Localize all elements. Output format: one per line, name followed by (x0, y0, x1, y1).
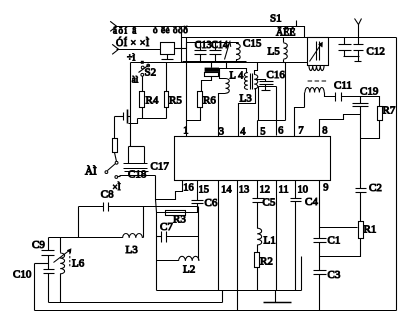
svg-text:R6: R6 (203, 95, 216, 107)
svg-text:L1: L1 (264, 235, 276, 247)
svg-text:L6: L6 (72, 258, 85, 270)
svg-text:ò êè õöð: ò êè õöð (153, 25, 188, 35)
svg-text:C17: C17 (151, 161, 170, 173)
svg-text:C15: C15 (243, 38, 262, 50)
svg-text:÷ì: ÷ì (127, 53, 135, 64)
svg-text:L2: L2 (183, 264, 195, 276)
svg-text:R5: R5 (169, 95, 182, 107)
svg-text:C4: C4 (305, 196, 318, 208)
svg-text:C8: C8 (101, 189, 114, 201)
svg-text:16: 16 (183, 183, 194, 194)
svg-text:C13: C13 (195, 40, 212, 51)
svg-text:9: 9 (323, 183, 328, 194)
svg-text:C16: C16 (267, 69, 286, 81)
svg-text:R2: R2 (260, 256, 273, 268)
svg-text:C10: C10 (13, 269, 32, 281)
svg-text:ÓÍ × ×Ì: ÓÍ × ×Ì (116, 37, 150, 49)
svg-text:L 4: L 4 (230, 70, 245, 81)
svg-text:R1: R1 (364, 224, 377, 236)
svg-text:7: 7 (298, 126, 303, 137)
svg-text:1: 1 (183, 126, 188, 137)
svg-text:12: 12 (260, 185, 271, 196)
svg-text:3: 3 (219, 127, 224, 138)
svg-text:ÀÌ: ÀÌ (85, 166, 97, 178)
svg-text:C5: C5 (263, 197, 276, 209)
svg-text:äöí â: äöí â (113, 26, 138, 36)
svg-text:àì: àì (132, 74, 139, 84)
svg-text:R4: R4 (146, 95, 159, 107)
svg-text:4: 4 (240, 127, 246, 138)
svg-text:C14: C14 (211, 40, 228, 51)
svg-text:5: 5 (260, 127, 265, 138)
svg-text:C9: C9 (32, 239, 45, 251)
svg-text:6: 6 (278, 126, 283, 137)
svg-text:C6: C6 (205, 197, 218, 209)
svg-text:10: 10 (298, 185, 309, 196)
svg-text:ÂÊÈ: ÂÊÈ (276, 27, 295, 39)
svg-text:C18: C18 (128, 169, 147, 181)
svg-text:C19: C19 (360, 86, 379, 98)
svg-text:C3: C3 (328, 269, 341, 281)
svg-text:R3: R3 (173, 214, 186, 226)
svg-text:L3: L3 (126, 244, 139, 256)
svg-text:C12: C12 (367, 46, 385, 58)
svg-text:15: 15 (199, 185, 210, 196)
svg-text:S1: S1 (270, 13, 282, 25)
svg-text:R7: R7 (383, 105, 396, 117)
svg-text:11: 11 (279, 185, 289, 196)
svg-text:L3: L3 (240, 93, 253, 105)
svg-text:C11: C11 (334, 80, 352, 92)
svg-text:S2: S2 (145, 67, 157, 79)
svg-text:8: 8 (322, 126, 327, 137)
svg-text:C2: C2 (369, 182, 382, 194)
svg-text:C7: C7 (160, 221, 173, 233)
svg-text:L5: L5 (268, 46, 281, 58)
svg-text:×Ì: ×Ì (113, 182, 121, 192)
svg-text:14: 14 (221, 185, 232, 196)
svg-text:13: 13 (239, 185, 250, 196)
svg-text:C1: C1 (328, 235, 341, 247)
